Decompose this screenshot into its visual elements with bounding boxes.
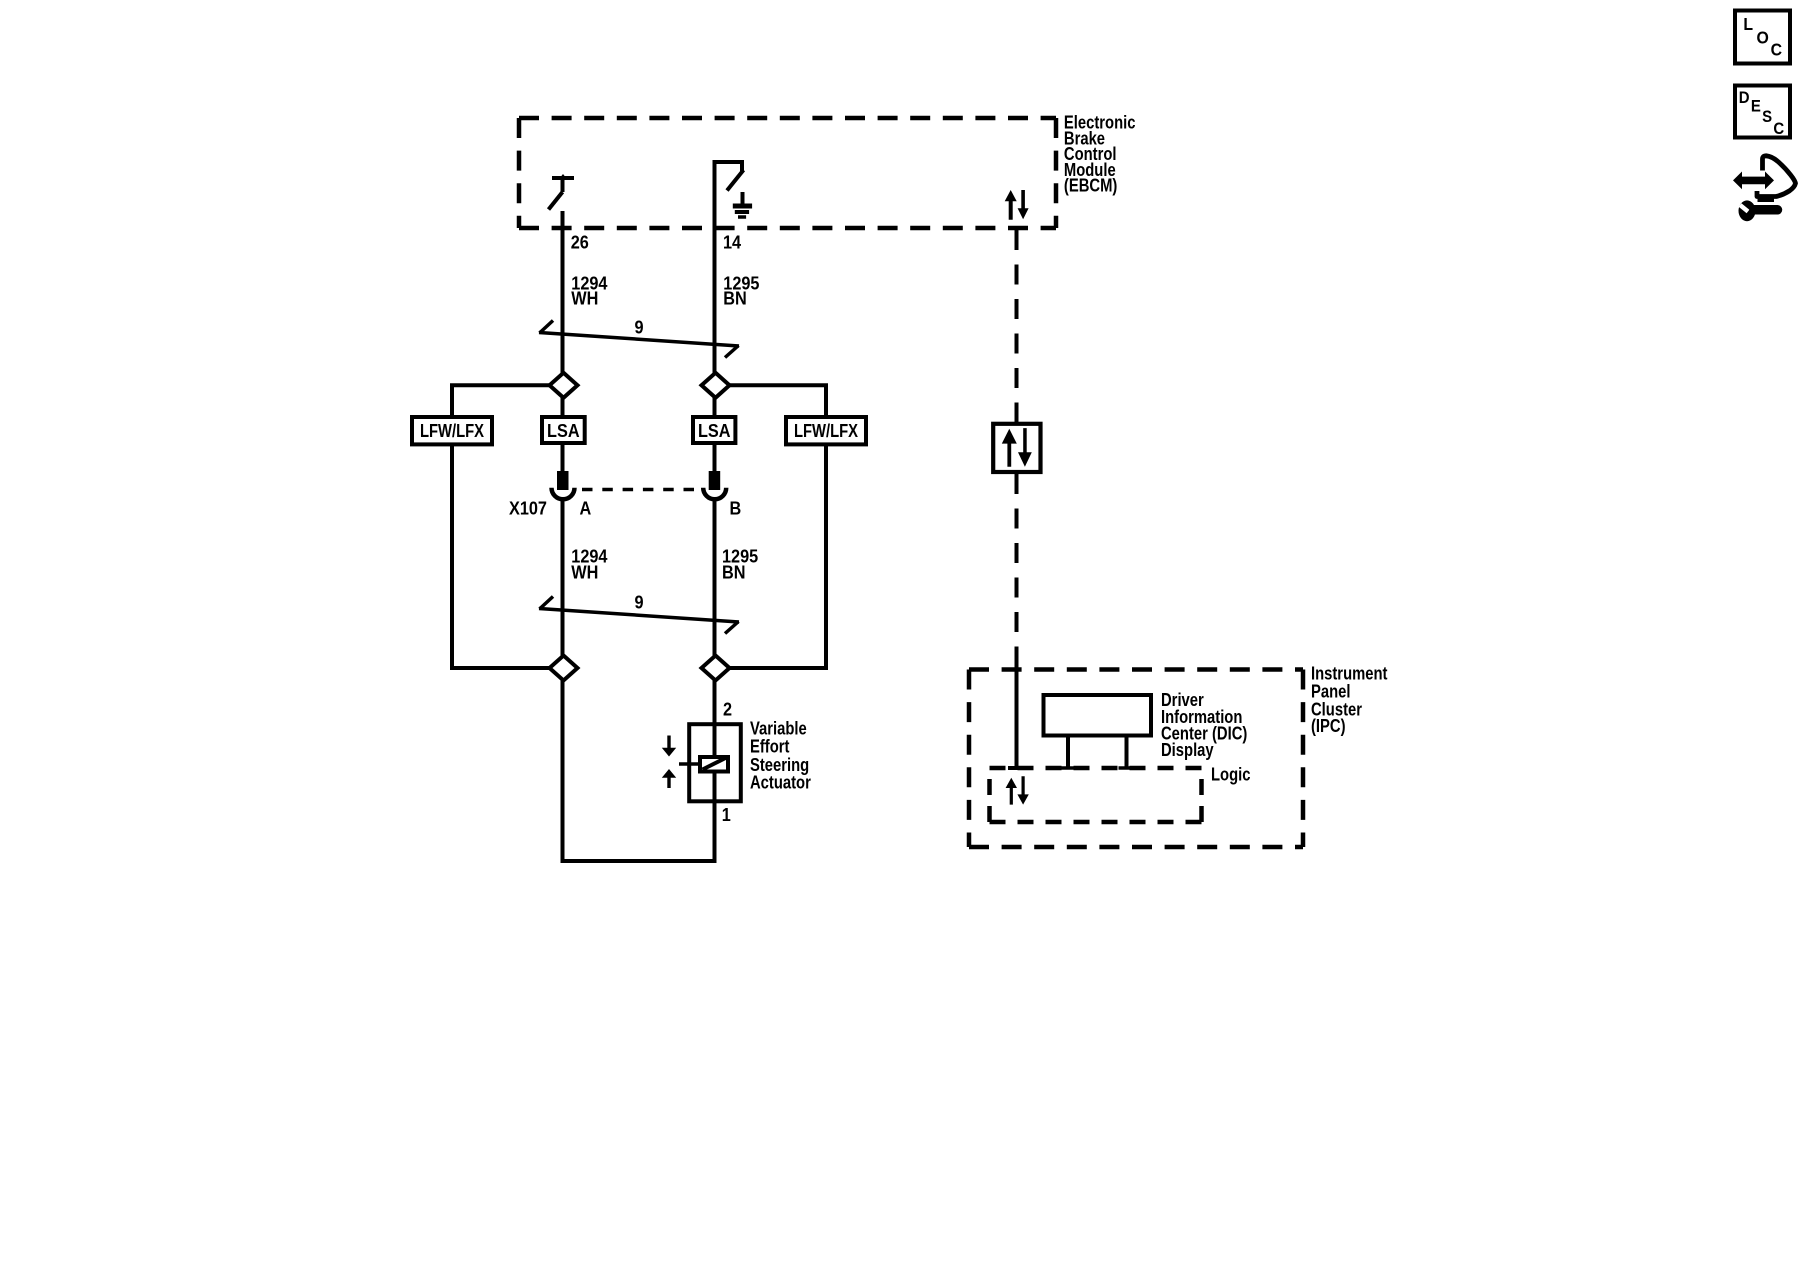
wire: left LFW/LFX down to lower junction bbox=[452, 444, 550, 668]
wire: connector A down to lower diamond bbox=[561, 500, 565, 656]
svg-text:LSA: LSA bbox=[698, 420, 731, 441]
wire: connector B down to lower diamond bbox=[713, 500, 717, 656]
svg-text:WH: WH bbox=[571, 288, 598, 309]
solenoid element (rect with diagonal) bbox=[700, 757, 728, 772]
wire: left lower diamond down, across bottom, up to actuator pin 1 bbox=[563, 681, 715, 862]
Variable Effort Steering Actuator box bbox=[689, 724, 741, 801]
junction node diamond (left lower) bbox=[550, 656, 578, 681]
wire: below right LSA bbox=[713, 445, 717, 473]
serial data wire into IPC logic bbox=[1008, 662, 1025, 768]
switch S1 (EBCM pin 26 internal switch) bbox=[549, 174, 575, 210]
svg-text:Logic: Logic bbox=[1211, 764, 1250, 785]
svg-text:(IPC): (IPC) bbox=[1311, 716, 1346, 737]
wire: below left LSA bbox=[561, 445, 565, 473]
svg-text:(EBCM): (EBCM) bbox=[1064, 175, 1117, 196]
dashed connector link X107 bbox=[582, 488, 694, 492]
svg-text:E: E bbox=[1751, 98, 1761, 116]
DIC display box bbox=[1044, 695, 1152, 736]
svg-text:LFW/LFX: LFW/LFX bbox=[420, 420, 485, 441]
svg-text:LFW/LFX: LFW/LFX bbox=[794, 420, 859, 441]
svg-text:O: O bbox=[1757, 27, 1769, 47]
svg-text:14: 14 bbox=[723, 232, 741, 253]
wire: right branch to LFW/LFX bbox=[730, 385, 827, 417]
DIC display legs bbox=[1060, 736, 1135, 769]
svg-text:9: 9 bbox=[635, 316, 644, 337]
svg-text:C: C bbox=[1773, 120, 1784, 138]
svg-text:Actuator: Actuator bbox=[750, 772, 811, 793]
wire: right LFW/LFX down to lower junction bbox=[730, 444, 827, 668]
svg-text:BN: BN bbox=[722, 561, 745, 582]
LSA box (left) bbox=[542, 417, 585, 443]
wire through actuator to solenoid bbox=[713, 724, 717, 801]
svg-text:Display: Display bbox=[1161, 739, 1214, 760]
wire: right lower diamond down to actuator pin 2 bbox=[713, 681, 717, 725]
junction node diamond (left upper) bbox=[550, 373, 578, 398]
wire: left branch to LFW/LFX bbox=[452, 385, 550, 417]
connector X107 pin B bbox=[703, 473, 726, 499]
crossover slash mark 9 (lower) bbox=[539, 597, 739, 634]
svg-text:BN: BN bbox=[723, 288, 746, 309]
wire: EBCM pin 14 down to junction diamond bbox=[713, 160, 717, 374]
svg-text:9: 9 bbox=[635, 592, 644, 613]
LSA box (right) bbox=[693, 417, 735, 443]
serial data box symbol bbox=[993, 424, 1040, 472]
svg-text:L: L bbox=[1743, 14, 1753, 34]
svg-text:LSA: LSA bbox=[547, 420, 580, 441]
variable control stub bbox=[679, 762, 698, 766]
LOC legend box bbox=[1735, 11, 1790, 64]
serial data arrows (inside EBCM) bbox=[1005, 190, 1029, 220]
svg-text:X107: X107 bbox=[509, 498, 547, 519]
svg-text:2: 2 bbox=[723, 699, 732, 720]
svg-text:S: S bbox=[1762, 108, 1772, 126]
EBCM module dashed box bbox=[519, 118, 1056, 228]
connector X107 pin A bbox=[552, 473, 575, 499]
navigation icon (arrows + wrench) bbox=[1733, 156, 1796, 221]
svg-text:26: 26 bbox=[571, 232, 589, 253]
crossover slash mark 9 (upper) bbox=[539, 321, 739, 358]
junction node diamond (right lower) bbox=[702, 656, 730, 681]
svg-text:A: A bbox=[580, 498, 592, 519]
svg-text:C: C bbox=[1771, 40, 1782, 60]
wire: left diamond to LSA bbox=[561, 396, 565, 417]
ground (EBCM internal) bbox=[733, 192, 752, 217]
svg-text:B: B bbox=[730, 498, 742, 519]
svg-text:1: 1 bbox=[722, 804, 731, 825]
wire: right diamond to LSA bbox=[713, 396, 717, 417]
svg-text:D: D bbox=[1739, 89, 1750, 107]
IPC module dashed box bbox=[969, 670, 1303, 848]
switch + ground (EBCM pin 14 internal) bbox=[715, 162, 745, 191]
DESC legend box bbox=[1735, 86, 1790, 138]
variable arrows (opposing) bbox=[662, 736, 676, 789]
serial data arrows (logic) bbox=[1006, 776, 1029, 804]
LFW/LFX box (right) bbox=[786, 417, 866, 444]
svg-text:WH: WH bbox=[571, 561, 598, 582]
Logic dashed box bbox=[990, 768, 1202, 822]
junction node diamond (right upper) bbox=[702, 373, 730, 398]
wire: EBCM pin 26 down to junction diamond bbox=[561, 211, 565, 374]
serial data dashed wire (EBCM to IPC) bbox=[1015, 230, 1019, 422]
LFW/LFX box (left) bbox=[412, 417, 492, 444]
